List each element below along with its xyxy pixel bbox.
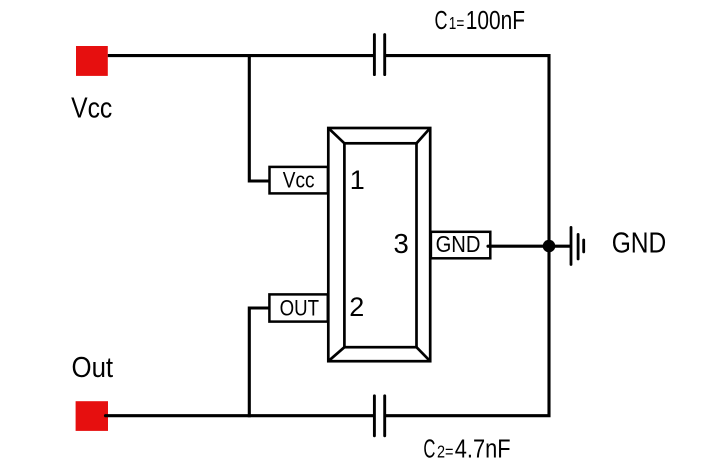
wire Vcc branch (top wire down to Vcc pin) <box>249 54 269 181</box>
svg-text:C: C <box>423 436 435 464</box>
wire OUT branch (OUT pin down to bottom wire) <box>249 308 269 417</box>
IC U1 package outer body <box>328 128 430 361</box>
pin box Vcc <box>270 167 328 194</box>
svg-text:Vcc: Vcc <box>71 93 112 125</box>
svg-text:Out: Out <box>72 352 114 384</box>
wire top-right + right vertical + bottom-right <box>386 56 549 416</box>
port Out (red square) <box>76 401 108 431</box>
svg-text:GND: GND <box>436 231 481 257</box>
junction node (dot) <box>543 240 556 253</box>
svg-text:1: 1 <box>350 165 365 195</box>
svg-text:1=: 1= <box>449 13 465 33</box>
capacitor C1 <box>374 35 384 75</box>
svg-text:GND: GND <box>612 228 667 260</box>
port Vcc (red square) <box>76 46 108 76</box>
ground symbol <box>571 227 584 264</box>
svg-text:Vcc: Vcc <box>283 167 315 192</box>
IC U1 package inner body <box>344 143 416 347</box>
wire top-left (Vcc square to C1) <box>108 54 373 57</box>
svg-text:OUT: OUT <box>280 296 319 321</box>
pin box GND <box>431 232 490 258</box>
wire bottom-left (Out square to C2) <box>106 414 374 417</box>
svg-text:100nF: 100nF <box>466 7 525 35</box>
label C2=4.7nF <box>423 436 510 464</box>
svg-text:2: 2 <box>349 292 364 322</box>
wire GND pin to ground <box>488 245 571 248</box>
label C1=100nF <box>435 7 526 35</box>
IC U1 bevel corner lines <box>328 128 430 361</box>
svg-text:3: 3 <box>394 228 409 259</box>
svg-text:2=: 2= <box>437 442 454 462</box>
capacitor C2 <box>374 396 384 436</box>
svg-text:4.7nF: 4.7nF <box>455 436 511 464</box>
pin box OUT <box>269 294 327 321</box>
svg-text:C: C <box>435 7 448 35</box>
